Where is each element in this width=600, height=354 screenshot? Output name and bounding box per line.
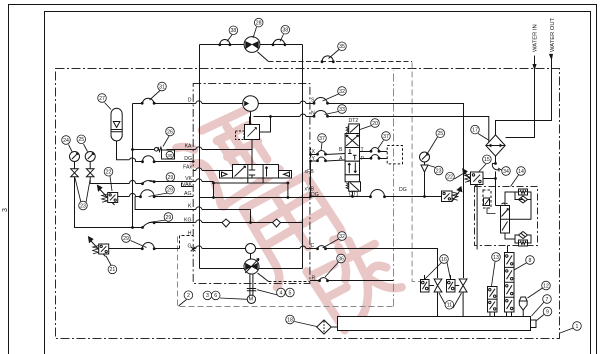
svg-text:32: 32: [339, 234, 345, 240]
svg-text:WATER OUT: WATER OUT: [550, 17, 556, 52]
svg-text:6: 6: [214, 293, 217, 299]
svg-text:17: 17: [472, 127, 478, 133]
svg-text:4: 4: [279, 290, 282, 296]
gauge 24 shutoff valve: [71, 169, 79, 177]
check valves on KG: [222, 219, 230, 227]
svg-text:N: N: [311, 111, 315, 117]
VAK stub: [182, 183, 194, 187]
relief valve 21: [91, 241, 106, 257]
WATER IN line: [506, 56, 535, 138]
balloon 30: [166, 151, 173, 158]
balloon 37: [318, 134, 327, 143]
X line: [311, 152, 346, 158]
relief valve 22: [100, 190, 115, 206]
C line: [310, 249, 438, 279]
svg-text:14: 14: [518, 169, 524, 175]
balloon 31: [158, 82, 167, 91]
S line right: [310, 104, 464, 279]
D-S line through box: [193, 103, 310, 105]
svg-text:3: 3: [2, 208, 9, 212]
gauge 25 to VK line: [89, 177, 91, 184]
svg-text:WATER IN: WATER IN: [533, 24, 539, 52]
DG line left: [129, 158, 193, 162]
pressure gauge 25: [85, 152, 95, 162]
svg-text:T: T: [361, 147, 365, 153]
D measuring vertical: [132, 150, 134, 228]
top right checks: [505, 192, 519, 206]
balloon 3: [203, 291, 212, 300]
main directional valve: [233, 165, 279, 179]
balloon 28: [254, 18, 263, 27]
svg-text:5: 5: [288, 290, 291, 296]
X-DG vertical: [310, 161, 312, 197]
svg-text:DT1: DT1: [349, 191, 359, 197]
motor top line: [200, 44, 303, 46]
svg-text:37: 37: [383, 134, 389, 140]
filter stack 13 (2 cells): [488, 287, 498, 313]
balloon 32: [338, 87, 347, 96]
pilot boxes: [220, 171, 233, 179]
shutoff valves 11: [434, 279, 442, 292]
svg-text:31: 31: [159, 84, 165, 90]
balloon 2: [184, 291, 193, 300]
WATER OUT line: [496, 59, 552, 135]
balloon 11: [445, 301, 454, 310]
svg-text:13: 13: [493, 255, 499, 261]
svg-text:VAK: VAK: [182, 182, 193, 188]
svg-text:DT2: DT2: [349, 118, 359, 124]
gauge 25 shutoff valve: [86, 169, 94, 177]
svg-text:1: 1: [576, 324, 579, 330]
bottom right checks: [505, 233, 519, 239]
KG line: [154, 222, 302, 224]
svg-text:15: 15: [484, 157, 490, 163]
svg-text:K: K: [188, 204, 192, 210]
balloon 22: [104, 167, 113, 176]
svg-text:AG: AG: [184, 191, 192, 197]
balloon 34: [502, 167, 511, 176]
suction filter 18: [317, 320, 332, 334]
balloon 36: [337, 254, 346, 263]
hose 31 on D: [142, 98, 154, 103]
filter stack 8 (4 cells): [505, 253, 515, 313]
svg-text:25: 25: [78, 137, 84, 143]
svg-text:7: 7: [546, 297, 549, 303]
balloon 29: [164, 213, 173, 222]
svg-text:32: 32: [339, 89, 345, 95]
svg-text:DG: DG: [399, 187, 407, 193]
svg-text:P: P: [361, 156, 365, 162]
svg-text:29: 29: [168, 175, 174, 181]
N line inside: [250, 111, 310, 132]
DG end coupler block: [442, 191, 453, 202]
svg-text:26: 26: [167, 129, 173, 135]
balloon 27: [98, 94, 107, 103]
balloon 13: [492, 253, 501, 262]
balloon 5: [286, 288, 295, 297]
tank: [338, 317, 531, 331]
VK line: [90, 182, 193, 184]
AG/DG rail: [200, 197, 310, 199]
balloon 12: [542, 281, 551, 290]
stroke limiter valve: [245, 125, 260, 140]
test coupling 26: [155, 148, 159, 152]
N line right: [310, 117, 489, 143]
svg-text:B: B: [339, 147, 343, 153]
gauge 24 measuring line: [75, 177, 143, 228]
K line: [135, 197, 250, 223]
balloon 20: [371, 119, 380, 128]
svg-text:KG: KG: [184, 217, 192, 223]
G line + pilot gauge circle: [193, 248, 310, 250]
accumulator 27: [117, 141, 130, 160]
balloon leader lines: [253, 27, 257, 38]
svg-text:38: 38: [231, 28, 237, 34]
balloon 38: [229, 26, 238, 35]
hose 38 right: [273, 39, 285, 44]
AG line: [118, 196, 194, 198]
svg-text:A: A: [339, 156, 343, 162]
balloon 17: [471, 125, 480, 134]
svg-text:35: 35: [339, 44, 345, 50]
svg-text:22: 22: [106, 170, 112, 176]
FAx pilot line: [193, 170, 219, 172]
svg-text:27: 27: [99, 96, 105, 102]
KA line: [133, 149, 253, 151]
pump on bottom pipe: [244, 259, 259, 274]
drive shaft: [250, 274, 253, 295]
manifold to filter stack: [507, 245, 509, 252]
motor case drain diagonal: [257, 52, 268, 62]
svg-text:21: 21: [110, 267, 116, 273]
balloon 14: [517, 167, 526, 176]
valve legs and bottom rail: [193, 178, 288, 198]
motor loop right pipe: [302, 45, 304, 269]
H dashed link: [180, 236, 194, 249]
svg-text:22: 22: [447, 175, 453, 181]
balloon 18: [286, 315, 295, 324]
svg-text:DG: DG: [184, 156, 192, 162]
pressure gauge 24: [70, 152, 80, 162]
bottom pipe: [200, 268, 303, 270]
balloon 4: [277, 288, 286, 297]
svg-text:M: M: [249, 297, 254, 303]
balloon 16: [440, 255, 449, 264]
svg-text:23: 23: [80, 203, 86, 209]
svg-text:D: D: [188, 98, 192, 104]
svg-text:R: R: [312, 275, 316, 281]
svg-text:H: H: [188, 230, 192, 236]
balloon 37: [382, 132, 391, 141]
drain hose 35: [322, 56, 333, 62]
balloon 25: [77, 135, 86, 144]
M motor: [247, 295, 255, 303]
balloon 9: [543, 307, 552, 316]
svg-text:12: 12: [543, 283, 549, 289]
balloon 33: [338, 105, 347, 114]
cooler to manifold: [492, 156, 499, 205]
svg-text:X: X: [312, 149, 316, 155]
enclosure unit 1 (dash-dot): [56, 69, 560, 339]
svg-text:2: 2: [187, 293, 190, 299]
coupling block 30: [162, 150, 175, 159]
thermo bypass valve 15: [465, 173, 477, 187]
svg-text:30: 30: [167, 153, 173, 158]
svg-text:G: G: [187, 243, 191, 249]
hose 38 left: [220, 39, 230, 44]
DT1 down to DG: [352, 191, 354, 196]
DG line right: [310, 196, 442, 198]
balloon 29: [122, 234, 131, 243]
svg-text:25: 25: [437, 131, 443, 137]
air breather 12: [522, 310, 524, 317]
svg-text:33: 33: [339, 107, 345, 113]
heat exchanger 17: [486, 135, 505, 156]
svg-text:Y: Y: [312, 156, 316, 162]
svg-text:xFB: xFB: [305, 169, 315, 175]
T/P stubs right: [360, 151, 388, 153]
svg-text:11: 11: [447, 303, 452, 309]
compensator pump circle: [243, 96, 259, 112]
svg-text:28: 28: [256, 20, 262, 26]
svg-text:C: C: [311, 243, 315, 249]
balloon 35: [338, 42, 347, 51]
svg-text:16: 16: [441, 257, 447, 263]
balloon 23: [79, 201, 88, 210]
gauge 35 with check: [420, 152, 430, 162]
left pilot valve: [483, 190, 491, 208]
svg-text:38: 38: [282, 28, 288, 34]
balloon 38: [281, 25, 290, 34]
central component dash-dot box: [193, 84, 310, 284]
svg-text:9: 9: [546, 309, 549, 315]
circulation pumps 16: [421, 280, 430, 293]
svg-text:23: 23: [436, 168, 442, 174]
svg-text:29: 29: [123, 236, 129, 242]
pilot dashed box: [387, 146, 402, 164]
svg-text:KA: KA: [185, 144, 192, 150]
svg-text:29: 29: [166, 215, 172, 221]
svg-text:24: 24: [63, 138, 69, 144]
svg-text:20: 20: [372, 121, 378, 127]
solenoid valve DT2/DT1: [346, 127, 349, 133]
svg-text:DG: DG: [311, 192, 319, 198]
svg-text:29: 29: [167, 188, 173, 194]
R line: [310, 280, 394, 282]
balloon 7: [543, 295, 552, 304]
Y line: [311, 160, 346, 161]
D line left loop: [133, 104, 194, 150]
svg-text:8: 8: [529, 258, 532, 264]
balloon 29: [166, 185, 175, 194]
balloon 22: [446, 172, 455, 181]
hydraulic motor 28: [244, 37, 260, 53]
group 14 dash-dot box: [475, 187, 538, 246]
balloon 25: [436, 129, 445, 138]
balloon 23: [434, 166, 443, 175]
pump case drain: [258, 273, 269, 282]
balloon 32: [338, 232, 347, 241]
svg-text:3: 3: [206, 293, 209, 299]
balloon 1: [573, 322, 582, 331]
balloon 29: [166, 173, 175, 182]
balloon 26: [166, 127, 175, 136]
pump group dashed box (unit 2): [178, 63, 421, 307]
svg-text:34: 34: [503, 169, 509, 175]
balloon 24: [62, 136, 71, 145]
balloon 15: [483, 155, 492, 164]
motor loop left pipe: [199, 45, 201, 269]
watermark: [176, 103, 405, 330]
stack legs: [490, 312, 512, 317]
balloon 21: [108, 265, 117, 274]
center relief valve: [501, 206, 510, 234]
svg-text:S: S: [311, 98, 315, 104]
svg-text:37: 37: [319, 136, 325, 142]
svg-text:36: 36: [338, 256, 344, 262]
svg-text:FAx: FAx: [183, 165, 192, 171]
svg-text:18: 18: [287, 317, 293, 323]
balloon 6: [211, 291, 220, 300]
pump connectors: [429, 285, 459, 287]
balloon 8: [526, 256, 535, 265]
